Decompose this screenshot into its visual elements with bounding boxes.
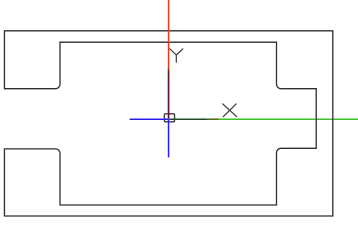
- part outline: [4, 31, 332, 216]
- crosshair left arm (blue): [130, 118, 169, 120]
- UCS X segment (olive transition): [207, 118, 219, 120]
- UCS Y segment (dark maroon): [168, 73, 170, 119]
- origin dot (bright green): [168, 118, 169, 120]
- crosshair bottom arm (blue): [168, 119, 170, 157]
- label X: [223, 104, 237, 117]
- UCS X segment (dark green): [169, 118, 207, 120]
- label Y: [170, 49, 183, 62]
- Y axis positive (bright red): [168, 0, 170, 119]
- pickbox: [164, 114, 174, 122]
- X axis positive (bright green): [169, 118, 358, 120]
- UCS Y segment (transition brown): [168, 69, 170, 73]
